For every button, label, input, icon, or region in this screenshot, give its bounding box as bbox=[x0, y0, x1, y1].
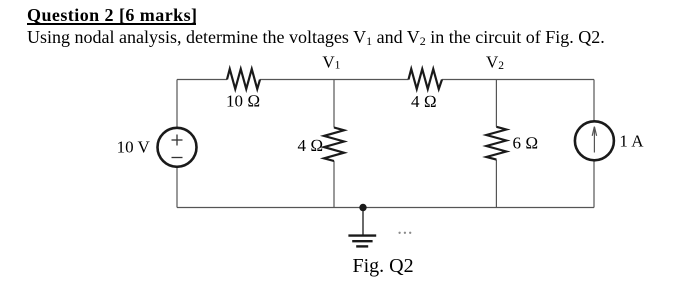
wire left vertical upper bbox=[176, 80, 178, 128]
voltage source minus sign bbox=[172, 157, 183, 159]
wire V2 branch upper bbox=[495, 80, 497, 127]
svg-text:10 Ω: 10 Ω bbox=[226, 92, 260, 111]
wire top rail left segment bbox=[177, 79, 227, 81]
voltage source 10V circle bbox=[158, 128, 197, 167]
ground symbol bars bbox=[348, 236, 376, 247]
wire V1 branch upper bbox=[333, 80, 335, 128]
title bbox=[27, 6, 198, 24]
wire V1 branch lower bbox=[333, 161, 335, 208]
voltage source plus sign bbox=[172, 135, 183, 146]
svg-text:Fig. Q2: Fig. Q2 bbox=[353, 255, 414, 277]
resistor 4 ohm vertical bbox=[324, 128, 344, 162]
wire top rail middle segment bbox=[260, 79, 409, 81]
wire bottom rail bbox=[177, 207, 594, 209]
wire top rail right segment bbox=[442, 79, 594, 81]
svg-text:1 A: 1 A bbox=[619, 132, 644, 151]
svg-text:4 Ω: 4 Ω bbox=[298, 136, 324, 155]
resistor 10 ohm horizontal bbox=[227, 69, 260, 89]
svg-text:4 Ω: 4 Ω bbox=[411, 92, 437, 111]
problem statement bbox=[27, 28, 605, 46]
wire left vertical lower bbox=[176, 168, 178, 208]
svg-text:V2: V2 bbox=[486, 53, 504, 72]
resistor 4 ohm horizontal bbox=[409, 69, 443, 89]
ground stem bbox=[362, 208, 364, 235]
current source arrow bbox=[592, 127, 596, 153]
wire right vertical upper bbox=[593, 80, 595, 122]
current source 1A circle bbox=[575, 121, 614, 160]
wire right vertical lower bbox=[593, 161, 595, 208]
svg-text:V1: V1 bbox=[322, 52, 340, 71]
wire V2 branch lower bbox=[495, 160, 497, 208]
ground junction dot bbox=[359, 204, 366, 211]
dots mark bbox=[398, 232, 411, 234]
svg-text:6 Ω: 6 Ω bbox=[513, 134, 539, 153]
svg-text:10 V: 10 V bbox=[117, 138, 151, 157]
resistor 6 ohm vertical bbox=[486, 127, 506, 160]
title underline bbox=[27, 23, 196, 25]
